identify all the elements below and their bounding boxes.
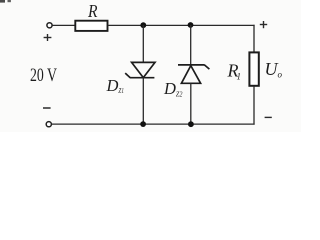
resistor R1 [249,52,258,85]
svg-text:20 V: 20 V [30,66,57,86]
wire (right vertical, top corner down to R1) [253,25,255,53]
plus sign (input +) [44,34,52,41]
stray mark top-left [0,0,11,3]
resistor R [75,21,107,31]
junction node B (top, DZ2 branch) [188,22,194,28]
junction node C (bottom, DZ1 branch) [140,121,146,127]
wire (node A down to DZ1) [142,25,144,62]
wire (node B down to DZ2) [190,25,192,65]
terminal (input −, bottom-left) [46,122,51,127]
wire (DZ2 down to bottom rail) [190,83,192,124]
wire (R1 down to bottom rail) [253,86,255,125]
wire (resistor R to right corner, top rail) [109,24,255,26]
zener diode DZ1 [125,62,155,77]
plus sign (output +) [260,21,267,28]
wire (bottom rail) [51,123,254,125]
wire (terminal to resistor R) [52,24,74,26]
zener diode DZ2 [178,65,209,83]
svg-text:R: R [87,1,97,21]
minus sign (output −) [265,116,272,118]
junction node A (top, DZ1 branch) [140,22,146,28]
minus sign (input −) [43,107,51,109]
junction node D (bottom, DZ2 branch) [188,121,194,127]
terminal (input +, top-left) [47,23,52,28]
wire (DZ1 down to bottom rail) [142,78,144,124]
